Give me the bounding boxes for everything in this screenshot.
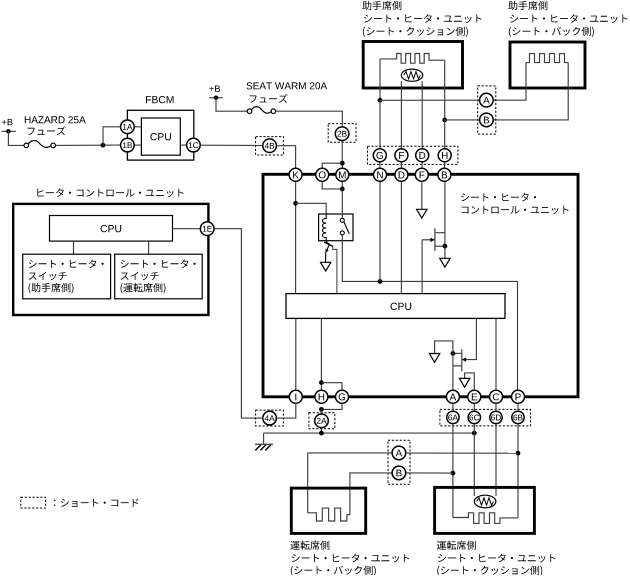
wire B down to Q2 [444,182,446,247]
wire CPU to C [495,318,497,390]
junction A wire [516,451,521,456]
ground arrow (Q1 emitter) [321,262,331,271]
port M [336,168,349,181]
wire 1A to CPU [135,126,142,128]
node A-feed [378,98,383,103]
wire 6C to thermistor [473,424,475,496]
wire B to driver back heater [350,473,392,515]
wire Q2 source to ground [444,246,446,258]
wire A to 6A [452,403,454,410]
Q2 channel bar [434,228,436,251]
port K [289,168,302,181]
fuse F1 HAZARD 25A [24,143,56,148]
wire CPU to right switch [148,241,150,254]
node Q3 [451,351,456,356]
short connector 4B dashed box [256,137,284,155]
wire branch to 1A [103,127,120,145]
connector 4A [263,411,277,425]
ground arrow (pin E) [459,378,469,387]
wire CPU to Q3 gate [465,318,476,359]
wire G to N [379,162,381,169]
port E [468,390,481,403]
wire thermistor right lead to pin D [421,81,423,149]
label HAZARD 25A [25,116,86,123]
connector 2A [315,414,329,428]
junction node hazard feed [101,143,106,148]
driver cushion heater unit box [435,487,535,533]
pin F [395,149,408,162]
connector 2B [335,127,349,141]
label SEAT WARM 20A [247,82,328,89]
connector A (bottom) [392,446,406,460]
node H/G lower [319,407,324,412]
wire heater element right lead to node [444,60,446,120]
transistor Q1 (relay driver) [324,241,337,294]
seat heater switch box (driver) [115,254,203,299]
port P [512,390,525,403]
ground arrow (pin F) [417,209,427,218]
legend short connector sample [21,497,46,508]
relay contact [340,218,344,235]
heater element (driver cushion) [453,513,518,524]
label passenger side (cushion) [362,1,401,10]
relay coil [322,214,326,241]
connector 6A [447,411,459,423]
connector 6D [490,411,502,423]
wire node to relay coil [296,203,327,214]
wire +B to SEAT WARM fuse [216,98,247,112]
wire +B to HAZARD fuse [8,131,24,145]
wire CPU to left switch [73,241,75,254]
pin 1E [200,222,214,236]
wire C to 6D [495,403,497,410]
wire 2A to ground bus [320,428,322,433]
heater control unit CPU box [50,216,173,242]
seat heater control unit box [263,174,578,396]
wire back heater right lead to connector B [493,63,568,120]
wire 6D to thermistor [495,424,497,496]
wire Q3 upper terminal [453,352,462,354]
wire 6B to driver cushion heater [517,424,519,517]
label passenger side (back) [508,1,547,10]
short connector A/B dashed box (bottom) [388,440,410,484]
wire fuse to connector 2B [276,111,343,126]
wire 6A to driver cushion heater [452,424,454,517]
junction 2A to ground bus [319,431,324,436]
heater element (passenger cushion) [380,54,445,64]
port B [438,168,451,181]
wire CPU to H [320,318,322,390]
port I [289,390,302,403]
CPU box (seat heater control unit) [286,294,505,319]
node O/M below [340,187,345,192]
heater element (driver back) [308,508,350,521]
wire D to CPU [400,182,402,294]
FBCM box [127,110,193,160]
port H [315,390,328,403]
pin H [438,149,451,162]
wire 4A to port I [277,403,296,418]
short connector 2B dashed box [328,124,356,143]
wire node to pin H [444,120,446,149]
port D [395,168,408,181]
wire M to relay contact [341,182,343,219]
wire node to connector A [380,99,480,101]
ground arrow (Q3) [429,354,439,363]
junction B wire [451,471,456,476]
junction relay output to N [378,279,383,284]
wire 1C to connector 4B [200,144,262,146]
port G [336,390,349,403]
wire fuse to FBCM 1B [56,144,121,146]
legend short code text [54,499,138,507]
wire branch to port O [322,163,342,168]
battery +B terminal label (right) [209,85,220,91]
connector row dashed box 6A 6C 6D 6B [440,409,531,426]
label heater control unit [37,188,183,197]
wire ground bus [264,432,475,434]
label fuse (katakana) [250,94,288,103]
pin 1B [121,138,135,152]
FBCM CPU box [141,118,180,155]
wire D to F [421,162,423,169]
wire O to node M [322,182,342,189]
junction 6C to ground bus [472,431,477,436]
passenger back heater unit box [510,42,585,88]
node H/G upper [319,380,324,385]
ground (chassis) [263,433,265,444]
port C [490,390,503,403]
wire Q2 drain [435,232,445,234]
passenger cushion heater unit box [363,42,462,89]
wire Q2 source [435,245,445,247]
wire 1E to connector 4A [214,229,262,418]
node B-feed [442,118,447,123]
port F [415,168,428,181]
wire A to driver back heater [308,453,392,513]
connector row dashed box G F D H [368,146,458,164]
seat heater switch box (passenger) [23,254,111,299]
thermistor (passenger cushion) [401,69,422,81]
short connector 2A dashed box [309,413,335,429]
label FBCM [146,96,174,103]
label fuse (katakana) [28,126,66,135]
wire A to 6B line [406,452,518,454]
node relay coil feed [293,201,298,206]
thermistor (driver cushion) [474,495,496,508]
wire Q2 gate [422,239,431,241]
wire node to connector B [445,119,480,121]
connector 6B [512,411,524,423]
connector 4B [263,139,277,153]
wire B to 6A line [406,472,453,474]
wire CPU to I [295,318,297,390]
wire E to ground arrow [465,373,475,390]
pin D [416,149,429,162]
pin 1A [121,120,135,134]
short connector 4A dashed box [256,410,284,426]
label seat heater control unit [461,193,536,202]
wire N down [379,182,381,282]
wire back heater left lead to connector A [493,63,526,101]
fuse F2 SEAT WARM 20A [247,109,275,114]
wire K to CPU [295,182,297,294]
wire node to 2A [320,409,322,414]
wire CPU to 1C [180,144,186,146]
wire Q2 gate to CPU [421,240,423,294]
+B terminal tick (left) [2,130,16,132]
wire relay output bus [342,235,517,282]
battery +B terminal label (left) [2,119,13,125]
wire F to ground arrow [421,182,423,210]
heater control unit box [13,204,208,315]
driver back heater unit box [291,488,365,533]
wire F to D [400,162,402,169]
connector B (bottom) [392,466,406,480]
short connector A/B dashed box (top) [478,86,496,134]
pin 1C [187,138,201,152]
wire bracket to G top [321,383,342,391]
wire H to B [443,162,445,169]
pin G [373,149,386,162]
wire 2B down to node M [341,141,343,169]
relay box [319,214,353,241]
wire CPU to 1E [173,228,201,230]
wire node to pin G [379,100,381,149]
wire Q3 to port A [452,353,454,390]
wire Q3 lower terminal [453,365,462,367]
wire E to 6C [473,403,475,410]
node above O/M [340,161,345,166]
port A [446,390,459,403]
wire Q3 to ground bend [435,341,453,354]
wire heater element left lead to node [379,59,381,100]
heater element (passenger back) [526,54,568,63]
connector A (top) [480,93,494,107]
ground arrow (Q2 source) [440,258,450,267]
port O [316,168,329,181]
node Q2 source [443,244,448,249]
+B terminal tick (right) [209,97,223,99]
port N [374,168,387,181]
label driver side (cushion) [437,541,476,550]
label driver side (back) [290,541,329,550]
connector B (top) [480,113,494,127]
wire bracket G bottom to node [321,403,342,409]
connector 6C [468,411,480,423]
Q3 channel bar [461,349,463,371]
wire P to 6B [517,403,519,410]
wire relay output down to P [517,281,519,390]
wire 4B to port K [277,146,296,169]
wire 1B to CPU [135,144,142,146]
wire thermistor left lead to pin F [400,81,402,149]
